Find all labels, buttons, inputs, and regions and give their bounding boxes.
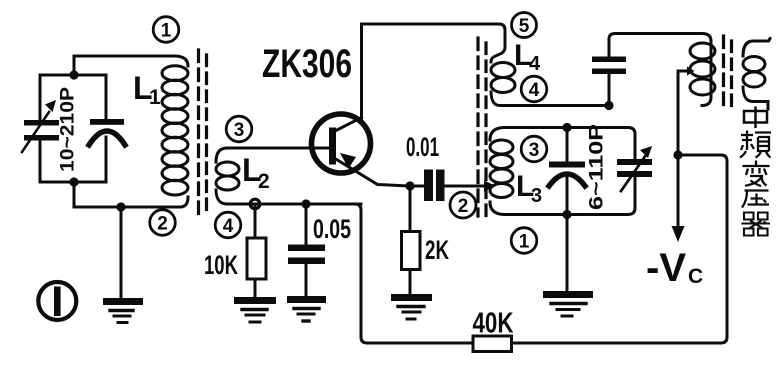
svg-text:C: C	[688, 265, 703, 288]
terminal 4 (L4 bottom)	[521, 76, 547, 102]
terminal 1 (L3 bottom)	[511, 228, 537, 254]
svg-text:40K: 40K	[473, 308, 514, 340]
inductor L2 (base coil)	[216, 148, 361, 204]
svg-text:5: 5	[519, 16, 530, 37]
svg-text:6~110P: 6~110P	[587, 124, 608, 210]
svg-text:3: 3	[234, 120, 245, 141]
svg-text:0.05: 0.05	[313, 214, 351, 244]
resistor R3 40K	[473, 336, 512, 352]
label L4	[514, 39, 541, 75]
label L3	[516, 170, 542, 207]
transformer core T2 (dashed, L4/L3)	[478, 38, 486, 216]
node: 10K tap on L2 bottom rail	[250, 199, 260, 209]
ground (antenna tank)	[103, 207, 143, 323]
svg-text:4: 4	[529, 80, 540, 101]
wire: top rail to L4	[362, 24, 505, 47]
node: tank top junction	[562, 123, 571, 132]
wire: antenna tank top rail and lead to L1 top	[40, 56, 188, 75]
inductor L5 (IF transformer primary)	[690, 41, 715, 106]
capacitor CV2 variable 6~110P (tank right branch)	[617, 146, 652, 191]
ground (R1 10K)	[234, 297, 276, 322]
svg-text:ZK306: ZK306	[262, 42, 352, 86]
svg-text:2K: 2K	[425, 235, 449, 265]
inductor L4 (feedback coil)	[491, 47, 609, 106]
terminal 1 (L1 top)	[153, 17, 179, 43]
node: ground junction	[116, 202, 125, 211]
label L1	[133, 70, 161, 109]
node: IF tank bottom junction	[604, 101, 613, 110]
node: tank bottom junction	[562, 210, 571, 219]
svg-text:-V: -V	[646, 246, 686, 290]
node A (tank top junction)	[69, 70, 78, 79]
svg-text:0.01: 0.01	[406, 132, 439, 162]
capacitor C5 (IF tank)	[592, 34, 711, 106]
char 器	[742, 213, 771, 236]
inductor L1 (antenna coil)	[162, 66, 188, 195]
terminal 5 (L4 top)	[512, 13, 537, 38]
inductor L3 (oscillator coil)	[490, 128, 513, 215]
capacitor C1 fixed (right branch, curved plate)	[89, 75, 125, 182]
terminal 2 (L3 tap)	[450, 192, 476, 218]
transformer core T1 (dashed, L1/L2)	[199, 50, 207, 215]
transformer core T3 (dashed, IF)	[724, 36, 732, 110]
node: 0.05 tap on L2 bottom rail	[301, 199, 310, 208]
char 变	[743, 161, 770, 187]
wire: antenna tank bottom rail	[40, 181, 106, 184]
transistor Q1 ZK306 (PNP)	[312, 114, 411, 186]
svg-text:2: 2	[157, 214, 168, 235]
svg-text:4: 4	[223, 216, 234, 237]
ground (R2 2K)	[391, 294, 432, 319]
node B (tank bottom junction)	[69, 177, 78, 186]
wire: collector to top rail	[360, 24, 363, 118]
node: -Vc junction	[673, 150, 682, 159]
capacitor C2 0.05	[288, 204, 325, 296]
wire: tank bottom to L1 bottom	[74, 182, 188, 207]
resistor R2 2K	[402, 186, 421, 294]
label -Vc	[646, 246, 703, 290]
wire: primary tap to -Vc node	[678, 67, 695, 156]
node: emitter junction	[405, 181, 414, 190]
svg-text:10K: 10K	[204, 250, 238, 280]
terminal 3 (L2 top)	[226, 116, 252, 142]
wire: oscillator tank rails	[505, 128, 635, 160]
svg-text:4: 4	[529, 53, 541, 75]
label L2	[242, 152, 270, 193]
svg-text:1: 1	[149, 86, 161, 109]
char 压	[742, 191, 769, 208]
capacitor CV1 variable 10~210P (left branch)	[22, 75, 59, 182]
svg-text:3: 3	[531, 185, 542, 207]
figure number 1 (circled, bottom left)	[38, 282, 76, 320]
terminal 4 (L2 bottom)	[215, 212, 241, 238]
svg-text:1: 1	[519, 232, 530, 253]
svg-text:1: 1	[161, 21, 172, 42]
char 频	[740, 131, 771, 158]
ground (oscillator tank)	[543, 215, 593, 317]
svg-text:3: 3	[529, 140, 540, 161]
ground (C2 0.05)	[287, 296, 326, 321]
char 中	[744, 107, 767, 129]
terminal 2 (L1 bottom)	[150, 210, 176, 236]
svg-text:2: 2	[458, 196, 469, 217]
capacitor C4 fixed (curved plate, tank middle branch)	[549, 128, 585, 215]
resistor R1 10K	[247, 204, 266, 297]
power -Vc (arrow)	[672, 155, 685, 242]
capacitor C3 0.01	[410, 170, 496, 202]
terminal 3 (L3 top)	[521, 136, 547, 162]
svg-text:10~210P: 10~210P	[58, 87, 79, 172]
svg-text:2: 2	[258, 170, 270, 193]
label 中频变压器 (vertical)	[740, 107, 771, 236]
inductor L6 (IF transformer secondary)	[743, 39, 770, 110]
wire: feedback rail L2-bottom to 40K to -Vc node	[306, 204, 471, 343]
